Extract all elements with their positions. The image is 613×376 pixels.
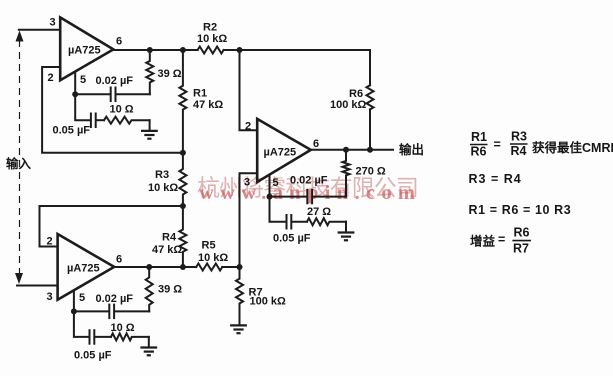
svg-text:270 Ω: 270 Ω bbox=[356, 166, 386, 178]
U3 pin 6 label bbox=[116, 254, 122, 266]
ground (R7) bbox=[230, 325, 247, 333]
svg-text:39 Ω: 39 Ω bbox=[158, 68, 182, 80]
node top: R1/R2 junction bbox=[180, 47, 186, 53]
resistor 10 ohm (U1 comp) bbox=[104, 104, 150, 124]
svg-text:10 kΩ: 10 kΩ bbox=[197, 33, 227, 45]
output label 输出 bbox=[399, 142, 424, 157]
svg-text:R4: R4 bbox=[162, 232, 177, 244]
wire R6 bottom lead bbox=[369, 109, 371, 149]
svg-text:6: 6 bbox=[313, 138, 319, 150]
wire U2 pin5 stub bbox=[269, 176, 271, 197]
svg-text:10 Ω: 10 Ω bbox=[111, 322, 135, 334]
node R5/R7 bbox=[237, 264, 243, 270]
node output/270 bbox=[343, 147, 349, 153]
svg-text:µA725: µA725 bbox=[68, 45, 101, 57]
resistor R4 bbox=[152, 206, 186, 267]
wire U1 pin5 stub bbox=[74, 73, 76, 95]
svg-text:2: 2 bbox=[48, 72, 54, 84]
resistor R3 bbox=[148, 153, 186, 206]
svg-text:=: = bbox=[494, 138, 501, 152]
node bottom R4 bbox=[180, 264, 186, 270]
wire R5 to U2 pin3 node bbox=[222, 266, 239, 268]
svg-text:µA725: µA725 bbox=[264, 147, 297, 159]
input arrow up bbox=[16, 31, 24, 42]
svg-text:R1 = R6 = 10 R3: R1 = R6 = 10 R3 bbox=[469, 203, 572, 217]
svg-text:3: 3 bbox=[47, 291, 53, 303]
svg-text:增益: 增益 bbox=[470, 234, 496, 249]
ground (U2 comp) bbox=[338, 222, 355, 241]
svg-text:6: 6 bbox=[116, 36, 122, 48]
svg-text:输出: 输出 bbox=[399, 142, 424, 157]
ground (U3 comp) bbox=[140, 337, 157, 355]
wire U3 pin5 stub bbox=[73, 291, 75, 312]
op-amp U2 bbox=[257, 119, 311, 182]
resistor R1 bbox=[179, 50, 223, 152]
node top: R2/U2 pin2 junction bbox=[237, 47, 243, 53]
input label 输入 bbox=[6, 156, 32, 171]
resistor R5 bbox=[196, 240, 228, 271]
svg-text:3: 3 bbox=[244, 177, 250, 189]
svg-text:0.05 µF: 0.05 µF bbox=[74, 350, 112, 362]
svg-text:100 kΩ: 100 kΩ bbox=[330, 99, 367, 111]
capacitor 0.02uF (U1) bbox=[75, 75, 150, 101]
node top: 39 ohm junction bbox=[147, 47, 153, 53]
svg-text:100 kΩ: 100 kΩ bbox=[250, 296, 287, 308]
resistor 39 ohm (U3 comp) bbox=[146, 267, 183, 311]
wire U1 pin2 feedback to node R1/R3 bbox=[42, 67, 183, 153]
svg-text:R1: R1 bbox=[193, 88, 207, 100]
capacitor 0.02uF (U2) bbox=[270, 175, 347, 204]
formula 2: R3 = R4 bbox=[469, 172, 522, 186]
node U3 pin2/R3/R4 junction bbox=[180, 203, 186, 209]
svg-text:R6: R6 bbox=[471, 145, 487, 159]
ground (U1 comp) bbox=[141, 120, 158, 139]
resistor R2 bbox=[197, 22, 227, 54]
svg-text:10 Ω: 10 Ω bbox=[110, 104, 134, 116]
svg-text:47 kΩ: 47 kΩ bbox=[193, 99, 223, 111]
svg-text:R3: R3 bbox=[511, 130, 527, 144]
wire U1 pin3 input bbox=[19, 29, 60, 31]
node U3 pin5 bbox=[71, 308, 77, 314]
svg-text:5: 5 bbox=[79, 292, 85, 304]
svg-text:0.05 µF: 0.05 µF bbox=[273, 233, 311, 245]
resistor 39 ohm (U1 comp) bbox=[146, 50, 181, 94]
node U1 pin5 bbox=[72, 91, 78, 97]
node U2 pin5 bbox=[267, 194, 273, 200]
capacitor 0.05uF (U1) bbox=[53, 94, 105, 136]
svg-text:R3 = R4: R3 = R4 bbox=[469, 172, 522, 186]
svg-text:0.02 µF: 0.02 µF bbox=[96, 75, 134, 87]
wire bottom output net bbox=[114, 266, 196, 268]
U2 pin 5 label bbox=[273, 177, 279, 189]
svg-text:0.02 µF: 0.02 µF bbox=[290, 175, 328, 187]
formula 1: R1/R6 = R3/R4 获得最佳CMRR bbox=[470, 130, 613, 159]
capacitor 0.05uF (U3) bbox=[74, 311, 112, 361]
resistor 270 ohm (U2 comp) bbox=[343, 150, 386, 197]
svg-text:5: 5 bbox=[273, 177, 279, 189]
U1 pin 6 label bbox=[116, 36, 122, 48]
U1 pin 3 label bbox=[50, 17, 56, 29]
wire U2 pin3 riser bbox=[240, 173, 258, 267]
op-amp U3 bbox=[58, 234, 115, 300]
svg-text:R3: R3 bbox=[155, 169, 169, 181]
svg-text:0.05 µF: 0.05 µF bbox=[53, 125, 91, 137]
svg-text:3: 3 bbox=[50, 17, 56, 29]
wire U3 pin2 feedback to node R3/R4 bbox=[40, 206, 183, 247]
resistor R6 bbox=[330, 85, 374, 111]
U1 pin 5 label bbox=[80, 74, 86, 86]
wire output net bbox=[311, 149, 393, 151]
svg-text:47 kΩ: 47 kΩ bbox=[152, 244, 182, 256]
resistor R7 bbox=[236, 267, 286, 325]
input arrow down bbox=[15, 273, 23, 284]
svg-text:R4: R4 bbox=[511, 144, 527, 158]
watermark line 1 bbox=[197, 175, 418, 201]
wire U3 pin3 input bbox=[17, 285, 58, 287]
svg-text:10 kΩ: 10 kΩ bbox=[198, 252, 228, 264]
formula 3: R1 = R6 = 10 R3 bbox=[469, 203, 572, 217]
wire top net R2 to corner bbox=[224, 49, 370, 51]
U1 pin 2 label bbox=[48, 72, 54, 84]
svg-text:R5: R5 bbox=[202, 240, 216, 252]
svg-text:获得最佳CMRR: 获得最佳CMRR bbox=[532, 140, 613, 155]
resistor 27 ohm (U2 comp) bbox=[307, 206, 346, 225]
svg-text:27 Ω: 27 Ω bbox=[307, 206, 331, 218]
svg-text:39 Ω: 39 Ω bbox=[158, 284, 182, 296]
formula 4: 增益 = R6/R7 bbox=[470, 226, 531, 256]
U3 pin 2 label bbox=[47, 236, 53, 248]
wire R6 top lead bbox=[369, 50, 371, 85]
U2 pin 6 label bbox=[313, 138, 319, 150]
capacitor 0.05uF (U2) bbox=[270, 197, 311, 245]
svg-text:5: 5 bbox=[80, 74, 86, 86]
svg-text:2: 2 bbox=[245, 121, 251, 133]
input dash-dot line bbox=[19, 40, 21, 275]
wire U2 pin2 drop bbox=[240, 50, 258, 130]
watermark line 2 bbox=[199, 182, 415, 204]
resistor 10 ohm (U3 comp) bbox=[111, 322, 149, 340]
svg-text:6: 6 bbox=[116, 254, 122, 266]
svg-text:µA725: µA725 bbox=[67, 263, 100, 275]
svg-text:=: = bbox=[498, 233, 505, 247]
svg-text:R1: R1 bbox=[471, 130, 487, 144]
op-amp U1 bbox=[60, 17, 113, 80]
U3 pin 3 label bbox=[47, 291, 53, 303]
svg-text:R7: R7 bbox=[513, 242, 529, 256]
wire top output net bbox=[113, 49, 197, 51]
node bottom 39 ohm bbox=[146, 264, 152, 270]
svg-text:R2: R2 bbox=[203, 22, 217, 34]
node U1 pin2/R1/R3 junction bbox=[180, 150, 186, 156]
svg-text:2: 2 bbox=[47, 236, 53, 248]
U2 pin 3 label bbox=[244, 177, 250, 189]
capacitor 0.02uF (U3) bbox=[74, 293, 149, 318]
svg-text:输入: 输入 bbox=[6, 156, 32, 171]
svg-text:0.02 µF: 0.02 µF bbox=[96, 293, 134, 305]
svg-text:R6: R6 bbox=[514, 226, 530, 240]
node output/R6 bbox=[367, 147, 373, 153]
svg-text:10 kΩ: 10 kΩ bbox=[148, 182, 178, 194]
U3 pin 5 label bbox=[79, 292, 85, 304]
U2 pin 2 label bbox=[245, 121, 251, 133]
